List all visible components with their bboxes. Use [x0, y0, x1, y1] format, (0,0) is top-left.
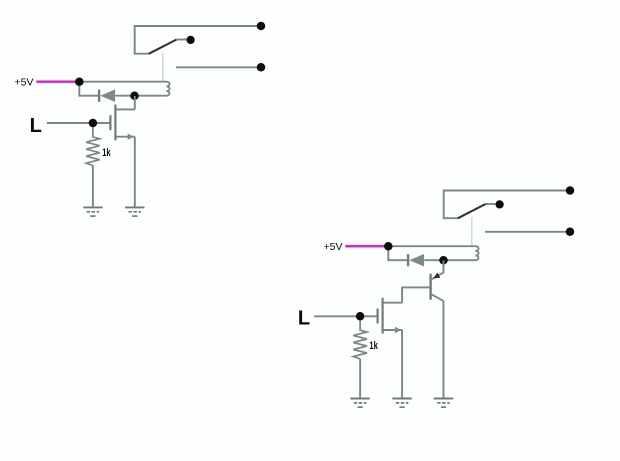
svg-text:L: L — [298, 308, 310, 330]
svg-text:+5V: +5V — [15, 77, 34, 89]
svg-text:L: L — [30, 115, 42, 137]
svg-text:+5V: +5V — [324, 241, 343, 253]
